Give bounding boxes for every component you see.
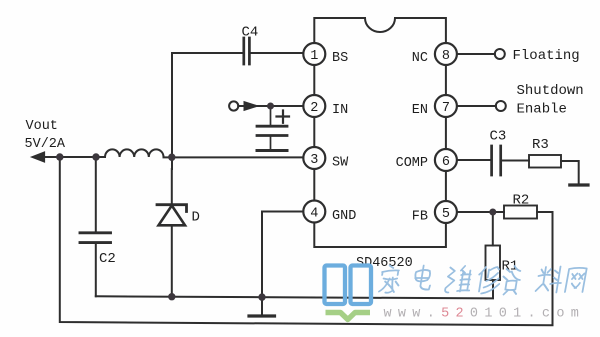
watermark logo book icon [325, 266, 372, 305]
wire BS to C4 [172, 53, 303, 147]
diode D cathode bar [157, 205, 187, 212]
wire FB down to R1 [492, 212, 494, 246]
ground rail [96, 280, 493, 298]
char 电 [413, 266, 433, 290]
svg-text:C2: C2 [99, 251, 116, 267]
junction node diode-anode ground [168, 293, 175, 300]
wire R2 to right rail [537, 211, 553, 213]
capacitor C5 input electrolytic [257, 108, 287, 149]
char 维 [445, 266, 473, 293]
Vout arrow [32, 152, 45, 162]
svg-text:D: D [192, 210, 200, 226]
wire GND pin to ground rail [262, 212, 302, 298]
svg-text:Enable: Enable [517, 102, 567, 118]
watermark CJK text 家电维修资料网 (drawn strokes) [379, 266, 588, 295]
pin 4 circle [303, 201, 325, 223]
svg-text:4: 4 [310, 206, 318, 221]
wire Vout / SW rail [42, 156, 303, 158]
pin 3 circle [303, 147, 325, 169]
junction node C2 [92, 153, 99, 160]
svg-text:COMP: COMP [396, 156, 428, 171]
svg-text:6: 6 [442, 155, 450, 170]
pin 6 circle [435, 149, 457, 171]
wire SW down to diode [171, 169, 173, 297]
junction node FB [489, 209, 496, 216]
svg-text:BS: BS [332, 51, 348, 66]
capacitor C4 [244, 38, 250, 64]
ground symbol at rail [261, 297, 263, 314]
wire FB to R2 [457, 211, 504, 213]
pin 7 circle [435, 95, 457, 117]
pin 8 circle [435, 43, 457, 65]
char 资 [501, 266, 523, 295]
capacitor C2 [80, 233, 111, 243]
svg-text:R3: R3 [532, 137, 549, 153]
svg-text:5V/2A: 5V/2A [25, 137, 66, 152]
IC U1 SD46520 body [314, 18, 446, 247]
svg-text:EN: EN [412, 103, 428, 118]
svg-text:2: 2 [310, 101, 318, 116]
wire NC to floating [457, 53, 495, 55]
input terminal open circle [229, 101, 238, 110]
ground bar R3 [570, 183, 588, 186]
open circle floating [495, 49, 505, 59]
svg-text:Floating: Floating [513, 48, 580, 64]
svg-text:FB: FB [412, 210, 428, 225]
svg-text:Shutdown: Shutdown [517, 83, 584, 99]
IC notch [365, 18, 395, 32]
wire IN input [238, 105, 303, 107]
junction node Vout-left [56, 153, 63, 160]
pin 1 circle [303, 43, 325, 65]
junction node IN [267, 103, 274, 110]
input arrow [244, 102, 258, 111]
char 料 [535, 267, 563, 293]
inductor L1 [105, 149, 164, 157]
pin 2 circle [303, 95, 325, 117]
char 修 [476, 267, 502, 294]
svg-text:1: 1 [310, 49, 318, 64]
svg-text:7: 7 [442, 101, 450, 116]
pin 5 circle [435, 201, 457, 223]
diode D triangle [159, 206, 186, 226]
svg-text:SW: SW [332, 155, 349, 170]
wire R3 to ground [561, 161, 579, 184]
svg-text:www.520101.com: www.520101.com [384, 307, 586, 322]
svg-text:NC: NC [412, 51, 428, 66]
svg-text:3: 3 [310, 153, 318, 168]
capacitor C3 [492, 146, 501, 175]
svg-text:R2: R2 [513, 193, 530, 209]
svg-text:5: 5 [442, 207, 450, 222]
svg-text:GND: GND [332, 209, 356, 224]
resistor R2 box [504, 206, 537, 219]
junction node gnd rail [258, 293, 265, 300]
svg-text:C3: C3 [490, 129, 507, 145]
char 家 [379, 266, 402, 293]
junction node SW [168, 154, 175, 161]
svg-text:Vout: Vout [26, 119, 58, 134]
svg-text:8: 8 [442, 49, 450, 64]
svg-text:C4: C4 [242, 25, 259, 41]
wire C2 branch [95, 157, 97, 296]
wire EN to enable [457, 105, 496, 107]
open circle enable [496, 101, 506, 111]
wire left vertical to bottom rail [60, 157, 553, 325]
resistor R1 box [486, 246, 501, 281]
watermark green swoosh [326, 313, 371, 320]
wire COMP to C3 [457, 159, 490, 161]
ground bar under input cap [257, 149, 287, 152]
char 网 [565, 268, 587, 292]
plus sign [277, 111, 290, 123]
wire R1 bottom to ground rail [492, 280, 494, 297]
resistor R3 box [529, 155, 561, 168]
wire SW junction up is covered by C4 path [171, 147, 173, 169]
svg-text:IN: IN [332, 103, 348, 118]
wire C3 to R3 [502, 160, 529, 162]
